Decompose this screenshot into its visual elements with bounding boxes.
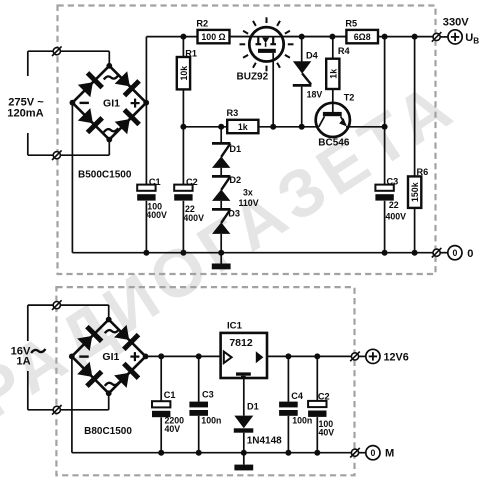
- wire rail to C3b: [198, 356, 200, 401]
- wire input to bridge bottom b: [28, 409, 109, 411]
- svg-text:IC1: IC1: [227, 320, 243, 331]
- terminal output 330V: [432, 32, 442, 42]
- junction C3 / 0V rail: [382, 250, 388, 256]
- wire terminal to plus b: [359, 355, 366, 357]
- zener D3 110V: [212, 209, 230, 234]
- terminal mains input bottom: [52, 150, 62, 160]
- junction rail / R4: [329, 34, 335, 40]
- svg-text:100n: 100n: [201, 416, 221, 426]
- junction C3b / 0V: [196, 450, 202, 456]
- ground symbol bottom block: [234, 465, 253, 471]
- wire rail to C1b: [160, 356, 162, 401]
- wire T2 emitter to C3 line: [346, 126, 385, 128]
- svg-text:D2: D2: [229, 175, 241, 185]
- junction zener chain / node: [218, 124, 224, 130]
- wire rail to C4: [287, 356, 289, 401]
- bridge rectifier GI1 B80C1500: [69, 317, 149, 397]
- wire BUZ92 gate down to node: [272, 53, 274, 127]
- wire bridge + up to top rail: [145, 37, 147, 103]
- capacitor C3 100n: [189, 402, 208, 416]
- junction C2b / rail: [314, 353, 320, 359]
- junction zeners / 0V rail: [218, 250, 224, 256]
- wire stub bridge bottom b: [108, 393, 110, 410]
- svg-text:150k: 150k: [410, 182, 420, 202]
- svg-text:B: B: [473, 36, 479, 45]
- resistor R1 10k: [177, 57, 190, 89]
- junction C4 / 0V: [285, 450, 291, 456]
- svg-text:400V: 400V: [146, 210, 167, 220]
- wire input N to bridge bottom: [28, 154, 110, 156]
- wire rail to D4: [301, 37, 303, 62]
- svg-text:40V: 40V: [319, 427, 335, 437]
- svg-text:3x: 3x: [243, 188, 253, 198]
- terminal input bottom b: [52, 405, 62, 415]
- svg-text:6Ω8: 6Ω8: [354, 32, 371, 42]
- diode D1 1N4148: [234, 416, 254, 433]
- 0V rail top block: [72, 252, 433, 254]
- transistor T2 BC546: [316, 103, 350, 137]
- svg-text:0: 0: [467, 248, 473, 260]
- zener D4 18V: [293, 61, 312, 85]
- wire D2 to D3: [220, 201, 222, 210]
- svg-text:400V: 400V: [183, 213, 204, 223]
- junction C3b / rail: [196, 353, 202, 359]
- output symbol 0 M: [366, 446, 380, 460]
- capacitor C2 100u 40V: [308, 401, 326, 417]
- output symbol + 12V6: [366, 349, 380, 363]
- wire D1 to 0V: [243, 433, 245, 453]
- resistor R3 1k: [227, 120, 258, 133]
- svg-text:U: U: [465, 32, 473, 44]
- terminal mains input top: [52, 46, 62, 56]
- junction gate / node: [270, 124, 276, 130]
- wire R6 to 0V rail: [414, 208, 416, 253]
- svg-text:D1: D1: [229, 144, 241, 154]
- junction C2b / 0V: [314, 450, 320, 456]
- ground symbol top block: [212, 264, 231, 270]
- wire D1 to D2: [220, 168, 222, 177]
- svg-text:GI1: GI1: [103, 97, 120, 109]
- resistor R5 6R8: [346, 30, 378, 43]
- terminal output M: [350, 448, 360, 458]
- bridge rectifier GI1 B500C1500: [70, 63, 150, 143]
- wire node to D1: [220, 127, 222, 144]
- wire rail down to R6: [414, 37, 416, 177]
- svg-text:330V: 330V: [443, 16, 470, 28]
- junction R1 / divider node: [180, 124, 186, 130]
- wire R4 to T2 collector: [332, 89, 334, 112]
- wire input bracket lower b: [27, 371, 29, 410]
- svg-text:1A: 1A: [16, 356, 30, 368]
- tilde 16V: [31, 349, 45, 353]
- svg-text:110V: 110V: [239, 198, 259, 208]
- terminal input top b: [52, 300, 62, 310]
- wire bridge + to IC1: [146, 355, 221, 357]
- junction D4 / node: [299, 124, 305, 130]
- wire bridge minus down: [71, 103, 73, 253]
- svg-text:D4: D4: [306, 51, 319, 61]
- svg-text:10k: 10k: [179, 66, 189, 81]
- wire bridge + down to C1: [145, 103, 147, 185]
- output symbol + UB: [448, 30, 462, 44]
- wire C1b to 0V: [160, 417, 162, 452]
- svg-text:R5: R5: [345, 19, 357, 29]
- junction C4 / rail: [285, 353, 291, 359]
- bridge minus sign b: [79, 355, 88, 357]
- svg-text:M: M: [385, 448, 394, 460]
- svg-text:1k: 1k: [328, 69, 338, 79]
- bridge AC tilde top: [104, 76, 118, 80]
- svg-text:BUZ92: BUZ92: [237, 72, 269, 83]
- svg-text:120mA: 120mA: [7, 108, 43, 120]
- wire R3 to T2 base: [258, 126, 319, 128]
- wire D3 to 0V rail: [220, 234, 222, 253]
- junction C2 / 0V rail: [180, 250, 186, 256]
- svg-text:C2: C2: [318, 392, 330, 402]
- svg-text:C3: C3: [202, 390, 214, 400]
- wire terminal to 0 b: [359, 452, 366, 454]
- wire IC1 out to terminal: [267, 355, 351, 357]
- wire R2 through BUZ92 to R5: [230, 36, 347, 38]
- svg-text:C3: C3: [387, 177, 399, 187]
- wire R1 to node: [182, 89, 184, 126]
- svg-text:C1: C1: [149, 177, 161, 187]
- capacitor C1 100u 400V: [137, 185, 155, 201]
- wire stub bridge top b: [108, 305, 110, 319]
- svg-text:R2: R2: [196, 19, 208, 29]
- junction emitter / C3 line: [382, 124, 388, 130]
- svg-text:12V6: 12V6: [384, 351, 409, 363]
- junction D1 / 0V: [241, 450, 247, 456]
- terminal output 0: [432, 248, 442, 258]
- top rail +330V: [146, 36, 433, 38]
- junction rail / C3 line: [382, 34, 388, 40]
- svg-text:C4: C4: [291, 391, 304, 401]
- svg-text:GI1: GI1: [102, 351, 119, 363]
- wire stub from bridge GI1 bottom vertex: [108, 140, 110, 156]
- wire rail to R1: [182, 37, 184, 57]
- bridge plus sign b: [130, 356, 139, 358]
- junction R6 / 0V rail: [412, 250, 418, 256]
- wire input L to bridge top: [28, 50, 110, 52]
- wire node down to C2: [182, 127, 184, 185]
- svg-text:R6: R6: [417, 167, 429, 177]
- svg-text:0: 0: [452, 248, 457, 258]
- wire input bracket upper: [27, 51, 29, 76]
- junction rail / R6 line: [412, 34, 418, 40]
- transistor T1 BUZ92 MOSFET: [240, 17, 294, 71]
- svg-text:22: 22: [389, 200, 399, 210]
- svg-text:R4: R4: [338, 46, 351, 56]
- capacitor C3 22u 400V: [375, 185, 393, 201]
- wire rail down to C3: [384, 37, 386, 185]
- svg-text:C1: C1: [164, 390, 176, 400]
- capacitor C2 22u 400V: [174, 185, 192, 201]
- dashed frame of mains supply block: [58, 6, 436, 275]
- svg-text:275V ~: 275V ~: [8, 96, 44, 108]
- wire rail to R4: [332, 37, 334, 59]
- svg-text:D1: D1: [247, 401, 259, 411]
- wire input bracket lower: [27, 133, 29, 155]
- svg-text:1N4148: 1N4148: [247, 435, 282, 446]
- junction C1b / rail: [158, 353, 164, 359]
- zener D1 110V: [212, 143, 230, 168]
- wire 0V rail to ground: [220, 253, 222, 264]
- wire C3b to 0V: [198, 416, 200, 453]
- junction rail / D4: [299, 34, 305, 40]
- svg-text:0: 0: [370, 448, 375, 458]
- svg-text:18V: 18V: [307, 90, 323, 100]
- bridge plus sign: [131, 102, 140, 104]
- svg-text:R1: R1: [185, 49, 197, 59]
- svg-text:D3: D3: [228, 209, 240, 219]
- wire stub to bridge GI1 top vertex: [108, 51, 110, 66]
- svg-text:1k: 1k: [238, 122, 248, 132]
- wire input bracket upper b: [27, 305, 29, 341]
- wire node to R3: [183, 126, 227, 128]
- junction rail / R1: [180, 34, 186, 40]
- wire input to bridge top b: [28, 304, 109, 306]
- dashed frame of heater supply block: [56, 287, 354, 475]
- terminal output 12V6: [350, 352, 360, 362]
- bridge minus sign: [80, 102, 89, 104]
- bridge AC tilde bottom b: [105, 382, 119, 386]
- output symbol 0: [448, 246, 462, 260]
- wire C3 to 0V rail: [384, 201, 386, 253]
- resistor R4 1k: [326, 59, 339, 89]
- svg-text:C2: C2: [186, 177, 198, 187]
- wire terminal to plus symbol: [440, 36, 448, 38]
- bridge AC tilde top b: [105, 329, 119, 333]
- svg-text:100 Ω: 100 Ω: [201, 32, 225, 42]
- svg-text:B80C1500: B80C1500: [84, 426, 132, 437]
- capacitor C4 100n: [279, 402, 298, 416]
- junction C1b / 0V: [158, 450, 164, 456]
- wire 0V to ground b: [243, 453, 245, 465]
- junction C1 / 0V rail: [143, 250, 149, 256]
- wire D4 to node: [301, 87, 303, 127]
- resistor R6 150k: [408, 176, 421, 208]
- wire C2b to 0V: [316, 417, 318, 453]
- svg-text:40V: 40V: [165, 424, 181, 434]
- wire rail to C2b: [316, 356, 318, 401]
- 0V rail bottom block: [72, 452, 353, 454]
- svg-text:BC546: BC546: [318, 138, 350, 149]
- svg-text:B500C1500: B500C1500: [78, 170, 132, 181]
- svg-text:R3: R3: [227, 108, 239, 118]
- regulator IC1 7812: [221, 333, 267, 378]
- svg-text:T2: T2: [344, 93, 355, 103]
- wire C4 to 0V: [287, 416, 289, 453]
- zener D2 110V: [212, 176, 230, 201]
- resistor R2 100R: [198, 30, 230, 43]
- wire C2 to 0V rail: [182, 201, 184, 253]
- BUZ92 internal symbol: [256, 37, 277, 53]
- capacitor C1 2200u 40V: [152, 401, 170, 417]
- wire IC1 gnd down to D1: [243, 378, 245, 416]
- bridge AC tilde bottom: [104, 128, 118, 132]
- svg-text:7812: 7812: [229, 337, 253, 349]
- wire bridge minus down b: [71, 356, 73, 452]
- svg-text:400V: 400V: [386, 212, 407, 222]
- wire C1 to 0V rail: [145, 201, 147, 253]
- wire terminal to 0 symbol: [440, 252, 448, 254]
